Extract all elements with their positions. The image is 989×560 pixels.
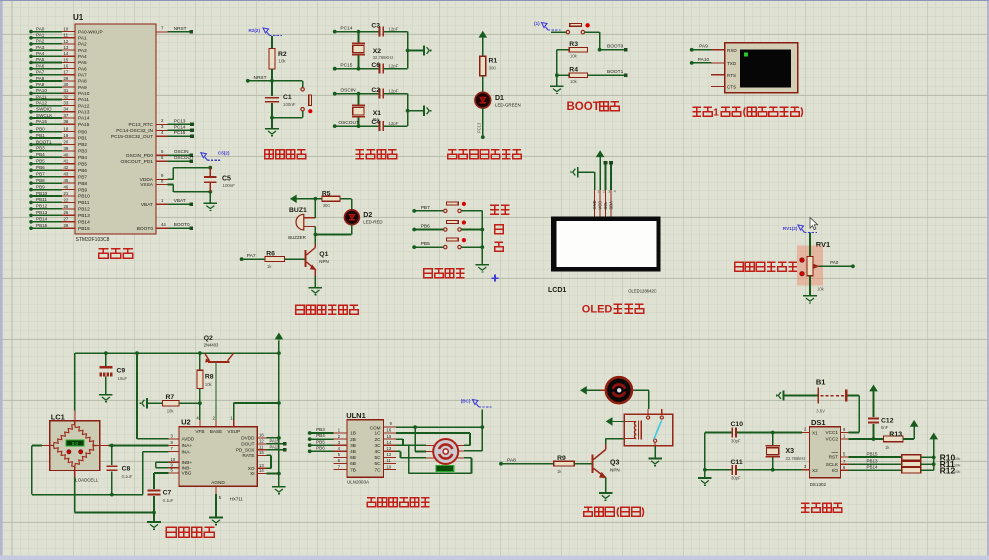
svg-text:1: 1 [713, 108, 719, 119]
svg-text:VCC2: VCC2 [825, 437, 838, 442]
svg-text:10: 10 [64, 27, 69, 32]
svg-text:SWDIO: SWDIO [36, 107, 52, 112]
svg-text:PC13: PC13 [477, 122, 482, 133]
svg-text:PB6: PB6 [36, 165, 45, 170]
svg-text:PA0: PA0 [830, 260, 839, 265]
RST SCLK IO wires [848, 456, 901, 458]
power arrow relay coil [607, 418, 612, 425]
svg-text:ULN2003A: ULN2003A [347, 480, 369, 485]
wire 1C to right-top [396, 432, 470, 434]
wire VBG to C7 [154, 472, 169, 474]
svg-text:R8: R8 [205, 374, 214, 381]
capacitor C4 [379, 121, 381, 131]
svg-text:PA7: PA7 [36, 70, 45, 75]
ground R7 [146, 398, 148, 408]
svg-text:NPN: NPN [610, 468, 620, 473]
svg-text:SWCLK: SWCLK [36, 113, 53, 118]
svg-text:10: 10 [387, 464, 392, 469]
ULN1 pin 1 wire [333, 432, 347, 434]
svg-text:PA8: PA8 [78, 79, 87, 85]
junction [357, 67, 361, 71]
svg-text:VBG: VBG [182, 471, 192, 476]
ULN1 pin 3 wire [333, 444, 347, 446]
svg-text:14: 14 [64, 51, 69, 56]
junction [152, 511, 156, 515]
svg-text:44: 44 [161, 222, 166, 227]
ground crystal bottom [423, 106, 425, 116]
junction [555, 73, 559, 77]
svg-text:PA10: PA10 [78, 91, 90, 97]
svg-text:1C: 1C [375, 431, 382, 436]
svg-text:PA9: PA9 [36, 82, 45, 87]
svg-text:PB6: PB6 [316, 445, 325, 450]
node PA9 wire [690, 48, 694, 52]
wire C1 to bottom rail [271, 103, 273, 118]
wire right vertical 2 [407, 94, 409, 126]
button PB6 [444, 228, 447, 231]
wire X1 to OSCOUT [358, 118, 360, 126]
wire Q3 collector [605, 439, 607, 444]
wire C5 to ground [209, 192, 211, 203]
wire button left [551, 31, 566, 33]
svg-text:18: 18 [64, 127, 69, 132]
crystal X2 [358, 32, 360, 43]
title 晶振电路 [356, 149, 365, 151]
svg-text:PB13: PB13 [867, 459, 879, 464]
svg-text:B1: B1 [816, 378, 826, 387]
node PB6 wire [412, 228, 416, 232]
svg-text:30: 30 [64, 82, 69, 87]
ULN1 pin 10 wire [384, 469, 396, 471]
chip ULN1 ULN2003A body [347, 420, 384, 477]
wire AVDD [136, 353, 138, 439]
svg-text:0.0: 0.0 [72, 441, 79, 446]
blue plus cursor [491, 277, 498, 279]
svg-text:20: 20 [64, 139, 69, 144]
svg-text:PA10: PA10 [36, 88, 47, 93]
wire C10 right [737, 432, 802, 434]
COM wire [396, 426, 482, 428]
svg-text:PB15: PB15 [36, 223, 48, 228]
svg-text:PC15: PC15 [340, 63, 352, 69]
crystal X3 [772, 433, 774, 445]
title 时钟模块 [801, 502, 810, 504]
virtual terminal body [712, 49, 725, 51]
button PB5 [444, 245, 447, 248]
svg-text:Q1: Q1 [319, 251, 328, 258]
junction [270, 79, 274, 83]
svg-text:PB14: PB14 [78, 220, 90, 226]
svg-text:VCC: VCC [598, 201, 603, 210]
svg-text:PB1: PB1 [36, 133, 45, 138]
wire C3 right [384, 31, 408, 33]
svg-text:PC13: PC13 [174, 118, 186, 123]
resistor R10 [902, 455, 921, 460]
U1 pin 4 PC15 wire [156, 135, 168, 137]
loadcell display [66, 440, 84, 446]
svg-text:41: 41 [64, 159, 69, 164]
junction [771, 431, 775, 435]
svg-text:26: 26 [64, 210, 69, 215]
svg-text:R13: R13 [889, 431, 902, 438]
resistor R8 [197, 370, 203, 388]
svg-text:COM: COM [370, 425, 381, 430]
junction [771, 468, 775, 472]
svg-text:C6: C6 [371, 62, 380, 69]
svg-text:40: 40 [64, 152, 69, 157]
svg-text:PA15: PA15 [36, 119, 47, 124]
title 水位数据调节 [735, 262, 744, 271]
svg-text:11: 11 [64, 33, 69, 38]
node PA7 wire [240, 257, 244, 261]
svg-text:BOOT1: BOOT1 [607, 69, 624, 75]
svg-text:C1: C1 [283, 94, 292, 101]
button boot [566, 30, 569, 33]
keys bus wire [481, 211, 483, 265]
svg-text:100nF: 100nF [283, 102, 296, 107]
ground RV1 [803, 295, 817, 297]
svg-text:PC15: PC15 [174, 130, 186, 135]
svg-text:PB3: PB3 [316, 427, 325, 432]
U1 pin 30 PA9 wire [31, 86, 62, 88]
svg-text:LED-RED: LED-RED [363, 219, 382, 224]
U1 pin 32 PA11 wire [31, 99, 62, 101]
svg-text:2: 2 [603, 190, 605, 194]
svg-text:U2: U2 [181, 418, 191, 427]
relay armature [654, 421, 662, 440]
U1 pin 21 PB10 wire [31, 195, 62, 197]
wire to ground [153, 513, 155, 523]
svg-text:OLED: OLED [582, 304, 613, 316]
svg-text:C7: C7 [163, 490, 172, 497]
wire X2 to PC15 [358, 56, 360, 69]
U1 pin 45 PB8 wire [31, 182, 62, 184]
svg-text:PA9: PA9 [78, 85, 87, 91]
wire C9 to ground [105, 376, 107, 394]
resistor R7 [163, 400, 179, 406]
U1 pin 17 PA7 wire [31, 74, 62, 76]
svg-text:300: 300 [323, 203, 331, 208]
power arrow pump [581, 387, 586, 394]
wire LC1 bottom [74, 470, 76, 477]
svg-text:PB11: PB11 [36, 197, 47, 202]
U1 pin 15 PA5 wire [31, 62, 62, 64]
window edge strips [0, 0, 3, 560]
svg-text:PB6: PB6 [78, 168, 87, 174]
svg-text:C10: C10 [731, 421, 744, 428]
resistor R4 [569, 73, 587, 78]
ULN1 pin 13 wire [384, 450, 396, 452]
svg-text:PA5: PA5 [36, 57, 45, 62]
svg-text:LCD1: LCD1 [548, 287, 566, 294]
U1 pin 34 SWDIO wire [31, 111, 62, 113]
display LCD1 body [551, 216, 660, 271]
junction [135, 351, 139, 355]
U1 pin 46 PB9 wire [31, 189, 62, 191]
svg-text:PA9: PA9 [699, 44, 708, 50]
resistor R7 wire [147, 402, 163, 404]
U1 pin 14 PA4 wire [31, 55, 62, 57]
svg-text:13: 13 [64, 45, 69, 50]
svg-text:14: 14 [387, 440, 392, 445]
wire to bus [461, 210, 482, 212]
svg-text:11: 11 [259, 444, 264, 449]
junction [480, 425, 484, 429]
U1 pin 6 OSCOUT wire [156, 160, 168, 162]
wire bottom to button [272, 117, 303, 119]
wire D1 to PC13 [482, 108, 484, 137]
terminal screen [740, 49, 791, 87]
U1 pin 3 PC14 wire [156, 129, 168, 131]
svg-text:TXD: TXD [727, 61, 737, 66]
svg-text:100nF: 100nF [223, 183, 236, 188]
svg-text:43: 43 [64, 172, 69, 177]
wire AGND [215, 494, 217, 518]
svg-text:PA6: PA6 [78, 66, 87, 72]
svg-text:2N4403: 2N4403 [204, 343, 219, 348]
svg-text:PB4: PB4 [316, 433, 325, 438]
title 主芯片 [99, 248, 109, 250]
wire C8 down [111, 471, 113, 494]
junction [406, 109, 410, 113]
svg-text:10k: 10k [205, 382, 213, 387]
svg-text:3B: 3B [350, 443, 356, 448]
svg-text:R5: R5 [322, 190, 331, 197]
svg-text:C4: C4 [371, 119, 380, 126]
wire to ground 2 [408, 110, 424, 112]
svg-text:X2: X2 [812, 468, 818, 473]
svg-text:PB1: PB1 [78, 136, 87, 142]
svg-text:PA4: PA4 [36, 51, 45, 56]
U1 pin 7 NRST wire [156, 31, 168, 33]
svg-text:2B: 2B [350, 437, 356, 442]
title 复位电路 [265, 150, 274, 159]
svg-text:PA2: PA2 [36, 39, 45, 44]
svg-text:R1: R1 [489, 58, 498, 65]
U1 pin 11 PA1 wire [31, 37, 62, 39]
svg-text:10k: 10k [954, 469, 960, 474]
wire RV1 bottom [809, 276, 811, 296]
svg-text:OLED128642C: OLED128642C [628, 289, 656, 294]
svg-text:PC14: PC14 [174, 124, 186, 129]
svg-text:I/O: I/O [832, 468, 839, 473]
svg-text:PB4: PB4 [78, 155, 87, 161]
U1 pin 42 PB6 wire [31, 169, 62, 171]
svg-text:PA15: PA15 [78, 122, 90, 128]
wire C11 right [737, 469, 802, 471]
svg-text:15: 15 [259, 450, 264, 455]
ULN1 pin 6 wire [333, 463, 347, 465]
svg-text:42: 42 [64, 165, 69, 170]
junction [598, 48, 602, 52]
wire to R2 top [271, 36, 273, 48]
svg-text:PB6: PB6 [421, 223, 430, 229]
ground C7 [147, 521, 161, 523]
node BOOT1 wire [588, 74, 626, 76]
U1 pin 44 BOOT0 wire [156, 227, 169, 229]
node PC13 dot [481, 135, 485, 139]
ground crystal top [423, 45, 425, 55]
wire 4C to left-bottom [396, 450, 401, 452]
resistor R8 wire top [199, 353, 201, 370]
capacitor C9 wire [105, 353, 107, 366]
wire button bottom [302, 111, 304, 118]
wire LC1 right to INA+ [109, 445, 169, 447]
capacitor C5 [208, 166, 212, 170]
svg-text:PC15-OSC32_OUT: PC15-OSC32_OUT [111, 134, 153, 140]
junction [406, 49, 410, 53]
junction [198, 401, 202, 405]
U1 pin 31 PA10 wire [31, 92, 62, 94]
svg-text:PB0: PB0 [36, 126, 45, 131]
svg-text:BOOT0: BOOT0 [174, 222, 190, 227]
svg-text:1B: 1B [350, 431, 356, 436]
svg-text:C5: C5 [222, 176, 231, 183]
wire pump to relay [632, 389, 634, 391]
wire GND pin [578, 171, 595, 173]
svg-text:32.768kHz: 32.768kHz [786, 456, 806, 461]
U1 pin 43 PB7 wire [31, 176, 62, 178]
svg-text:ULN1: ULN1 [346, 411, 366, 420]
svg-text:21: 21 [64, 191, 69, 196]
svg-text:PA11: PA11 [78, 97, 89, 103]
wire C12 top [873, 391, 875, 417]
svg-text:NRST: NRST [174, 26, 187, 31]
svg-text:R2: R2 [278, 51, 287, 58]
wire 3C to right-bottom [396, 444, 409, 446]
wire R1 to D1 [482, 76, 484, 93]
svg-text:PA1: PA1 [78, 36, 87, 42]
svg-text:PA3: PA3 [78, 48, 87, 54]
ULN1 pin 15 wire [384, 438, 396, 440]
junction [357, 124, 361, 128]
svg-text:STM32F103C8: STM32F103C8 [76, 237, 110, 243]
svg-text:C3: C3 [371, 22, 380, 29]
svg-text:33: 33 [64, 101, 69, 106]
svg-text:INA-: INA- [182, 449, 192, 454]
svg-text:VSUP: VSUP [227, 429, 240, 434]
wire VSUP [233, 420, 235, 427]
svg-text:0.1uF: 0.1uF [122, 474, 133, 479]
U2 left pins [169, 438, 179, 440]
svg-text:LOADCELL: LOADCELL [75, 478, 98, 483]
LED D1 [475, 92, 491, 108]
svg-text:PB7: PB7 [36, 172, 45, 177]
node OSCIN wire [333, 92, 337, 96]
svg-text:3: 3 [608, 190, 610, 194]
svg-text:10k: 10k [570, 53, 578, 58]
svg-text:PA2: PA2 [78, 42, 87, 48]
svg-text:X1: X1 [812, 431, 818, 436]
wire cursor to COM [481, 410, 483, 428]
svg-text:C8: C8 [122, 466, 131, 473]
loadcell buttons [67, 450, 71, 454]
ULN1 pin 11 wire [384, 463, 396, 465]
svg-text:HX711: HX711 [230, 497, 244, 502]
svg-text:RATE: RATE [242, 453, 254, 458]
node PA8 wire [499, 462, 503, 466]
capacitor C8 [106, 465, 117, 467]
ULN1 pin 12 wire [384, 456, 396, 458]
svg-text:VFB: VFB [195, 429, 204, 434]
svg-text:OSCOUT: OSCOUT [338, 120, 359, 126]
svg-text:2C: 2C [375, 437, 382, 442]
wire R10-R12 right bus [921, 456, 934, 458]
wire C2 right [384, 93, 408, 95]
svg-text:PC13_RTC: PC13_RTC [129, 122, 154, 128]
svg-text:AVDD: AVDD [182, 437, 195, 442]
svg-text:46: 46 [64, 185, 69, 190]
svg-text:10k: 10k [817, 287, 825, 292]
wire R3 left [557, 49, 569, 51]
svg-text:10k: 10k [954, 456, 960, 461]
svg-text:GND: GND [592, 200, 597, 209]
svg-text:PB4: PB4 [36, 152, 45, 157]
svg-text:10k: 10k [279, 59, 287, 64]
svg-text:PB7: PB7 [78, 174, 87, 180]
resistor R5 [322, 196, 340, 201]
wire to ground [271, 118, 273, 129]
resistor R9 [554, 461, 575, 466]
title 继电器(加水) [584, 506, 593, 508]
U1 pin 40 PB4 wire [31, 156, 62, 158]
wire C7 down [153, 496, 155, 513]
wire R13 to power [903, 438, 914, 440]
svg-text:PA7: PA7 [78, 73, 87, 79]
svg-text:5C: 5C [375, 455, 382, 460]
svg-text:PA6: PA6 [36, 63, 45, 68]
junction [110, 493, 114, 497]
svg-text:PB5: PB5 [36, 159, 45, 164]
svg-text:C9: C9 [117, 368, 126, 375]
wire R5 to D2 [340, 198, 352, 200]
junction [110, 444, 114, 448]
pot highlight [797, 246, 823, 286]
U1 pin 5 OSCIN wire [156, 154, 168, 156]
svg-text:NRST: NRST [254, 75, 267, 81]
node PC14 wire [333, 30, 337, 34]
svg-text:16: 16 [387, 428, 392, 433]
svg-text:(BC): (BC) [461, 399, 471, 404]
junction [314, 197, 318, 201]
LED D2 [345, 210, 360, 225]
svg-text:(1): (1) [534, 21, 540, 26]
wire relay common to ground [654, 446, 656, 459]
label 设置 [490, 204, 499, 206]
ground Q3 [599, 492, 613, 494]
svg-text:PB9: PB9 [78, 187, 87, 193]
resistor R13 [884, 436, 904, 442]
svg-text:16: 16 [64, 64, 69, 69]
ground power rail [272, 486, 286, 488]
power arrow OLED [597, 151, 604, 156]
node PA15 wire [267, 443, 285, 445]
wire INB tie [156, 461, 169, 463]
svg-text:DOUT: DOUT [241, 442, 254, 447]
junction [480, 245, 484, 249]
svg-text:PB9: PB9 [36, 184, 45, 189]
U1 pin 41 PB5 wire [31, 163, 62, 165]
adjust buttons [800, 258, 804, 262]
junction [104, 351, 108, 355]
svg-text:5nF: 5nF [881, 425, 889, 430]
svg-text:3.6V: 3.6V [816, 409, 825, 414]
svg-text:0.1uF: 0.1uF [163, 498, 174, 503]
node PB7 wire [412, 209, 416, 213]
svg-text:OSCIN: OSCIN [340, 88, 356, 94]
svg-text:10k: 10k [167, 409, 175, 414]
wire buzzer bottom [314, 226, 316, 234]
